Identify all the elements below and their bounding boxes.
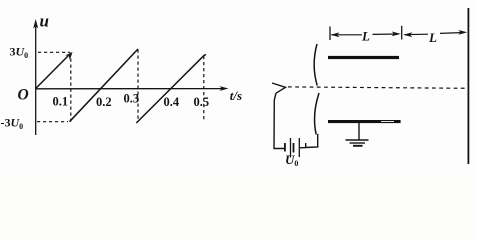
svg-text:0.1: 0.1 <box>53 95 69 109</box>
sawtooth segment 2 (0.1 to 0.3) <box>70 49 139 122</box>
screen line <box>467 8 469 164</box>
ground stem <box>358 123 360 140</box>
battery cell 2 negative (short) plate <box>293 143 295 153</box>
sawtooth segment 3 (0.3 to 0.5) <box>136 55 206 123</box>
svg-text:L: L <box>428 30 437 45</box>
dashed drop line at t=0.3 <box>137 50 139 122</box>
svg-text:0.5: 0.5 <box>194 95 210 109</box>
svg-text:u: u <box>40 12 49 31</box>
ground bar 3 <box>353 145 363 147</box>
dashed level line +3U0 <box>38 51 70 53</box>
anode arc upper half <box>314 44 317 86</box>
sawtooth segment 1 (0 to 0.1) with arrowhead <box>36 52 73 89</box>
battery cell 2 positive (long) plate <box>298 138 300 157</box>
dimension line L (first), left arrow <box>331 32 401 38</box>
battery cell 1 positive (long) plate <box>290 138 292 158</box>
upper deflection plate <box>328 56 399 59</box>
svg-text:0.4: 0.4 <box>164 95 180 109</box>
dimension tick at plate left end <box>329 27 331 41</box>
svg-text:O: O <box>18 87 29 104</box>
battery cell 1 negative (short) plate <box>284 143 286 152</box>
svg-text:0.3: 0.3 <box>124 92 140 106</box>
dashed level line -3U0 <box>37 121 68 123</box>
wire: cathode down to battery <box>274 93 284 148</box>
svg-text:L: L <box>361 29 370 44</box>
x-axis (t) with arrowhead <box>36 86 229 91</box>
svg-text:t/s: t/s <box>230 88 242 103</box>
dimension line L (second), arrows <box>403 30 467 37</box>
lower deflection plate <box>328 120 401 123</box>
wire: battery to anode (with small jog) <box>300 134 318 148</box>
ground bar 1 <box>346 139 369 141</box>
anode arc lower half <box>315 93 319 135</box>
y-axis (u) with arrowhead <box>33 19 38 135</box>
svg-text:0.2: 0.2 <box>96 95 112 109</box>
dashed beam axis line <box>288 87 468 88</box>
cathode filament (">" emitter) <box>272 83 286 93</box>
dashed drop line at t=0.1 <box>70 53 72 122</box>
dashed drop line at t=0.5 <box>203 56 205 121</box>
ground bar 2 <box>350 142 366 144</box>
dimension tick at plate right end <box>401 26 403 40</box>
